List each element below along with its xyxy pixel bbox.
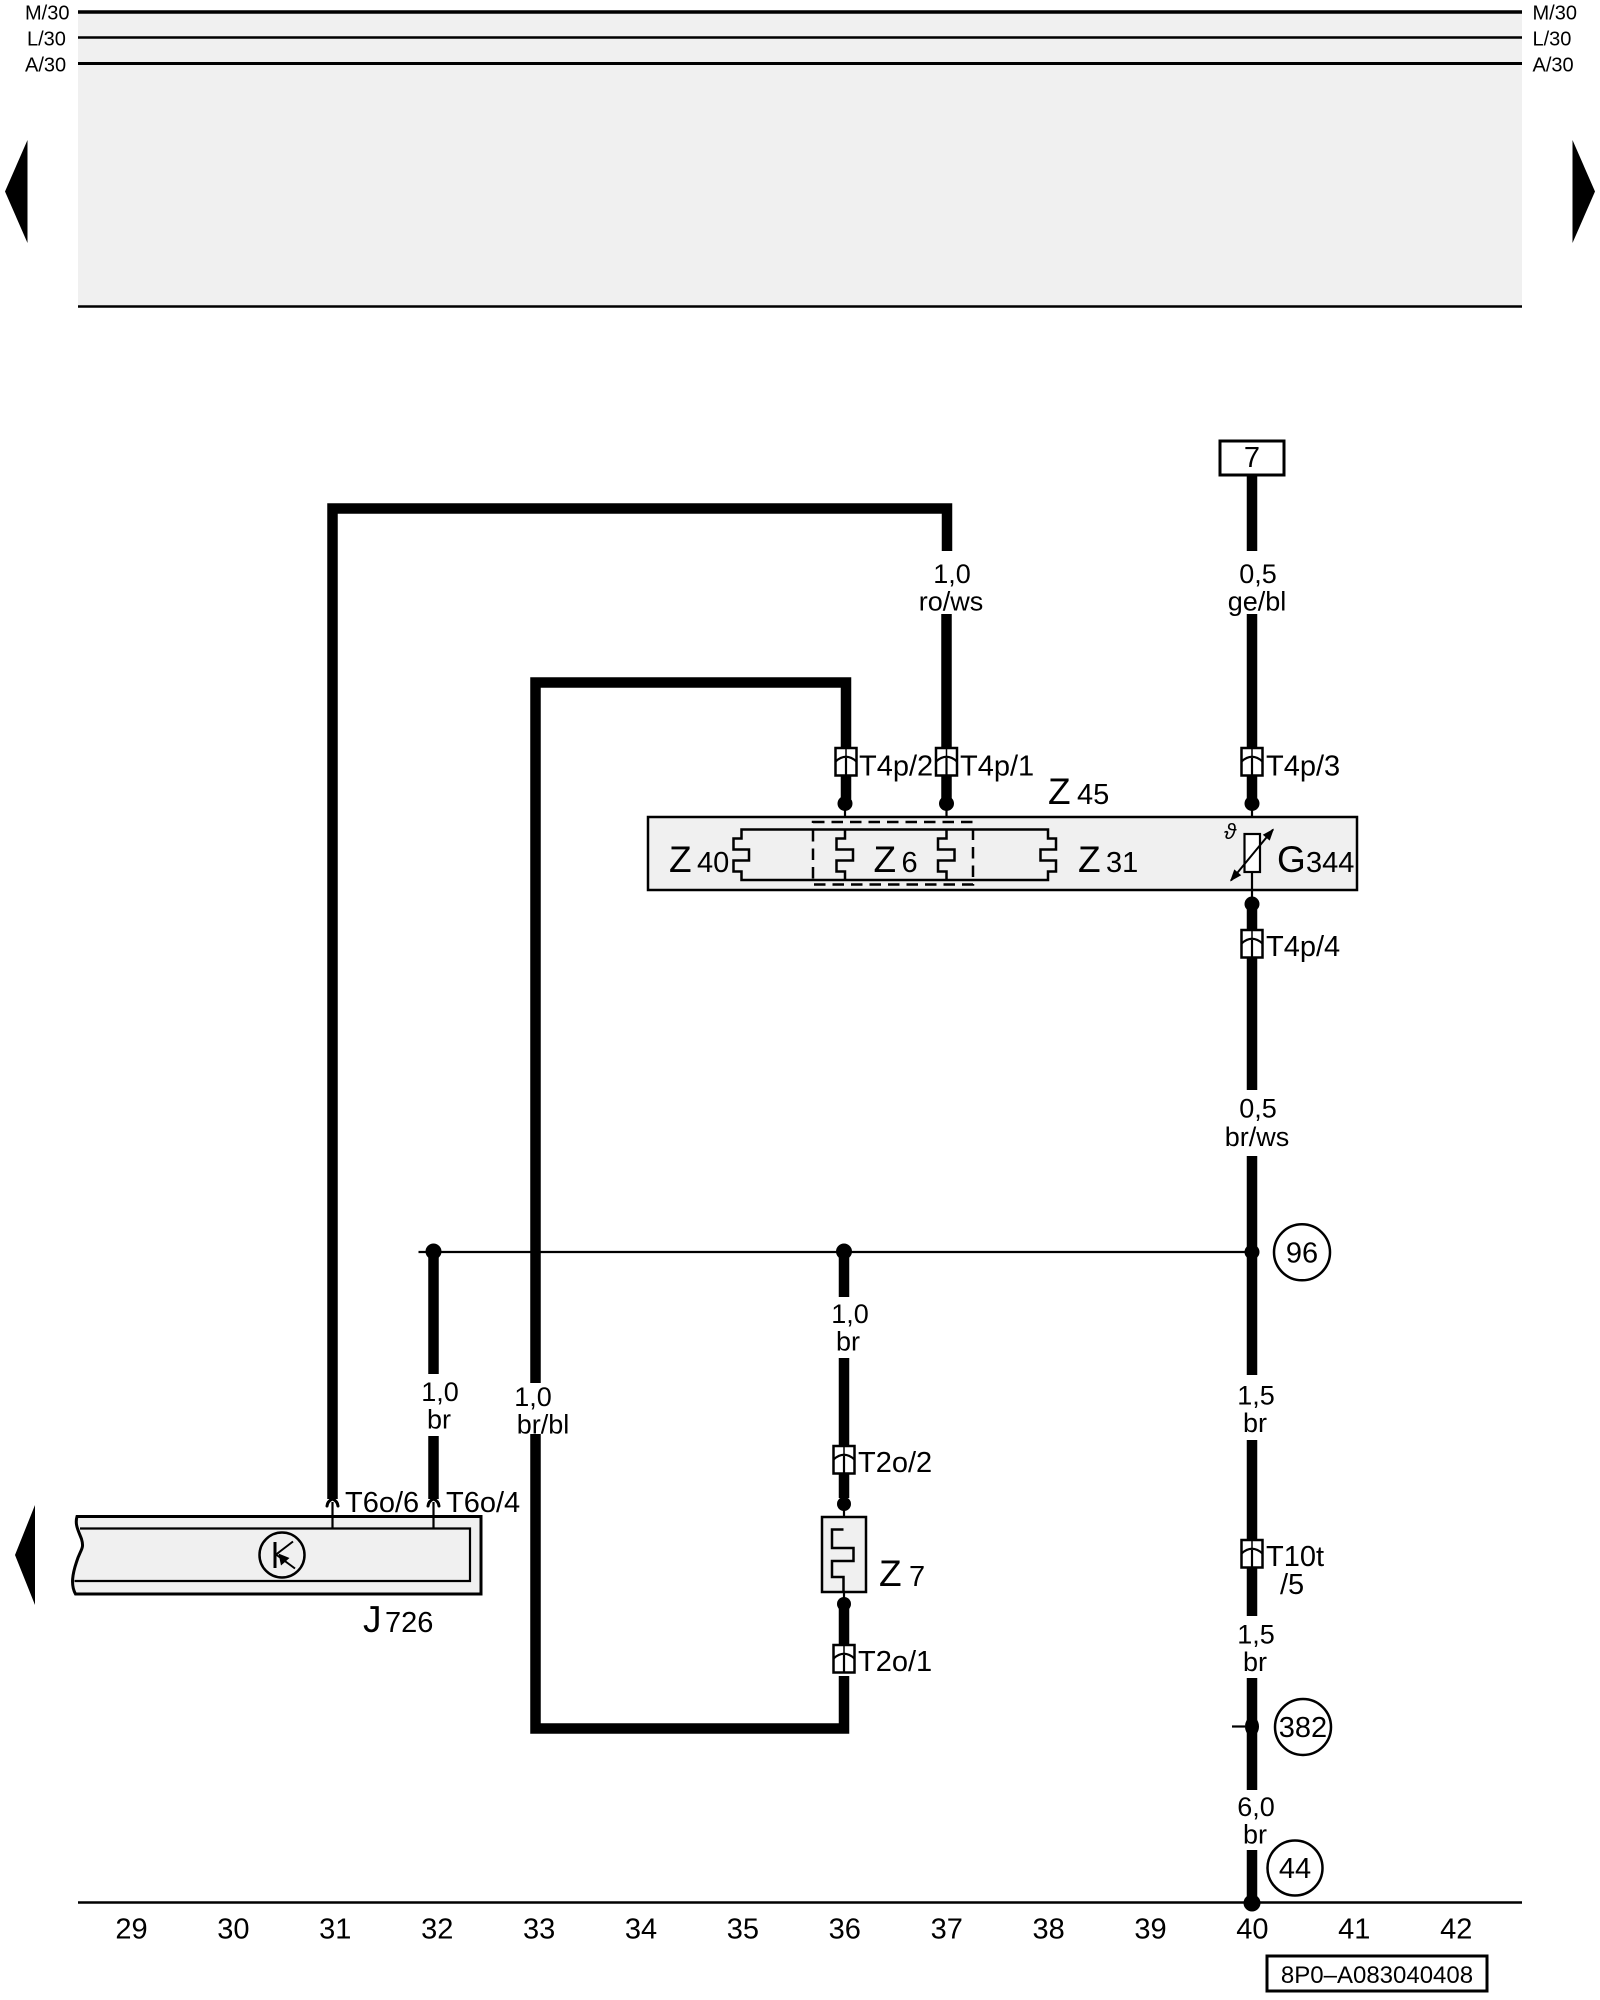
dashed housing Z6 <box>813 822 973 885</box>
wire through junction 96 <box>1247 1156 1258 1375</box>
svg-text:40: 40 <box>1236 1914 1268 1946</box>
svg-text:A/30: A/30 <box>25 55 66 77</box>
wire 1,0 br to T2o/2 <box>839 1358 850 1447</box>
svg-text:0,5: 0,5 <box>1239 1094 1277 1124</box>
junction dot above Z7 <box>837 1497 851 1511</box>
svg-text:T2o/1: T2o/1 <box>858 1646 932 1678</box>
svg-text:29: 29 <box>115 1914 147 1946</box>
svg-text:A/30: A/30 <box>1533 55 1574 77</box>
svg-text:br/bl: br/bl <box>517 1410 570 1440</box>
node circle 96 <box>1274 1224 1330 1280</box>
thin lead into Z45 from T4p/2 junction <box>844 804 846 831</box>
svg-text:T4p/1: T4p/1 <box>960 751 1034 783</box>
svg-text:ge/bl: ge/bl <box>1228 587 1287 617</box>
svg-text:39: 39 <box>1134 1914 1166 1946</box>
svg-text:Z: Z <box>1078 839 1101 880</box>
svg-text:T2o/2: T2o/2 <box>858 1447 932 1479</box>
svg-text:T6o/4: T6o/4 <box>446 1487 520 1519</box>
svg-text:M/30: M/30 <box>1533 3 1577 25</box>
junction dot branch 36 <box>836 1244 852 1260</box>
svg-text:37: 37 <box>931 1914 963 1946</box>
G344 variable arrow <box>1231 830 1273 881</box>
node circle 44 <box>1268 1841 1323 1896</box>
connector T2o/2 <box>834 1446 855 1474</box>
wire 1,0 br to T6o/4 <box>428 1436 439 1499</box>
connector T4p/1 <box>936 748 957 776</box>
bus band 30-rail <box>78 11 1522 307</box>
control module J726 <box>73 1517 481 1595</box>
connector T10t/5 <box>1242 1540 1263 1568</box>
thin lead pin T6o/6 <box>331 1502 333 1529</box>
svg-text:M/30: M/30 <box>25 3 69 25</box>
heater element housing Z45 <box>648 817 1357 890</box>
thin lead into Z45 from T4p/3 junction <box>1251 804 1253 835</box>
wire to T4p/1 (from J726 T6o/6 up and across) <box>333 509 948 1500</box>
junction dot branch 32 <box>426 1244 442 1260</box>
svg-text:6: 6 <box>902 847 918 879</box>
thin lead into Z7 <box>843 1504 845 1530</box>
wire stub Z7 to T2o/1 <box>839 1607 850 1646</box>
wire through junction 382 <box>1247 1678 1258 1790</box>
wire 1,0 ro/ws lower segment <box>941 614 952 749</box>
svg-text:br: br <box>427 1405 451 1435</box>
wire stub T2o/2 to Z7 <box>839 1474 850 1499</box>
wire stub T4p/3 to junction <box>1247 776 1258 800</box>
pin T6o/6 terminal <box>327 1499 338 1506</box>
thin lead into Z45 from T4p/1 junction <box>945 804 947 831</box>
svg-text:33: 33 <box>523 1914 555 1946</box>
wire 1,0 br stub below junction 36 <box>839 1252 850 1298</box>
connector T4p/3 <box>1242 748 1263 776</box>
Z7 element <box>832 1530 854 1593</box>
thin lead out of Z45 bottom <box>1251 872 1253 899</box>
svg-text:T4p/3: T4p/3 <box>1266 751 1340 783</box>
svg-text:31: 31 <box>319 1914 351 1946</box>
wire to T4p/2 (br/bl branch across) <box>536 683 847 1384</box>
svg-text:40: 40 <box>697 847 729 879</box>
svg-text:T4p/4: T4p/4 <box>1266 931 1340 963</box>
thin lead pin T6o/4 <box>432 1502 434 1529</box>
thin lead out of Z7 <box>843 1592 845 1604</box>
wire 0,5 ge/bl lower <box>1247 614 1258 749</box>
wire 1,0 br stub below junction 32 <box>428 1252 439 1375</box>
svg-text:6,0: 6,0 <box>1237 1792 1275 1822</box>
junction dot 382 <box>1245 1717 1259 1736</box>
svg-text:45: 45 <box>1077 779 1109 811</box>
wire stub T4p/1 to junction <box>941 776 952 800</box>
wire 6,0 br to ground rail <box>1247 1850 1258 1898</box>
connector T4p/2 <box>836 748 857 776</box>
wire bus L/30 <box>78 36 1522 38</box>
svg-text:35: 35 <box>727 1914 759 1946</box>
box terminal 7 <box>1220 441 1284 475</box>
svg-text:8P0–A083040408: 8P0–A083040408 <box>1281 1962 1473 1989</box>
resistor element Z7 housing <box>822 1517 866 1592</box>
svg-text:1,0: 1,0 <box>831 1299 869 1329</box>
element divider at Z31 left (T4p/1 feed) <box>938 830 955 881</box>
wire bus A/30 <box>78 62 1522 65</box>
svg-text:Z: Z <box>879 1553 902 1594</box>
element divider at Z6 left (T4p/2 feed) <box>837 830 854 881</box>
svg-text:Z: Z <box>669 839 692 880</box>
node circle 382 <box>1275 1699 1331 1755</box>
svg-text:34: 34 <box>625 1914 657 1946</box>
svg-text:L/30: L/30 <box>27 29 66 51</box>
svg-text:7: 7 <box>1244 442 1260 474</box>
svg-text:30: 30 <box>217 1914 249 1946</box>
svg-text:Z: Z <box>874 839 897 880</box>
svg-text:ro/ws: ro/ws <box>919 587 984 617</box>
svg-text:382: 382 <box>1279 1712 1327 1744</box>
sensor G344 resistor body <box>1245 834 1261 872</box>
wire 1,5 br lower <box>1247 1568 1258 1617</box>
continuation arrow top left <box>5 140 28 243</box>
svg-text:G: G <box>1277 839 1306 880</box>
svg-text:T6o/6: T6o/6 <box>345 1487 419 1519</box>
heater element strip outline (Z40/Z6/Z31) <box>734 830 1057 881</box>
diagram code box <box>1267 1956 1487 1991</box>
svg-text:ϑ: ϑ <box>1224 819 1237 844</box>
svg-text:44: 44 <box>1279 1853 1311 1885</box>
wire stub to T4p/4 <box>1247 907 1258 931</box>
svg-text:96: 96 <box>1286 1238 1318 1270</box>
svg-text:726: 726 <box>385 1607 433 1639</box>
tick at junction 382 <box>1232 1725 1245 1727</box>
junction dot under T4p/2 <box>838 796 853 811</box>
svg-text:42: 42 <box>1440 1914 1472 1946</box>
junction dot above T4p/4 <box>1245 897 1260 912</box>
continuation arrow mid left <box>15 1505 35 1605</box>
svg-text:1,0: 1,0 <box>514 1382 552 1412</box>
svg-text:32: 32 <box>421 1914 453 1946</box>
J726 electronics symbol <box>260 1533 305 1578</box>
junction dot at 96 <box>1245 1245 1260 1260</box>
junction dot under T4p/3 <box>1245 796 1260 811</box>
junction dot on ground rail <box>1244 1895 1261 1912</box>
svg-text:1,5: 1,5 <box>1237 1620 1275 1650</box>
svg-text:1,5: 1,5 <box>1237 1381 1275 1411</box>
svg-text:1,0: 1,0 <box>421 1377 459 1407</box>
svg-text:br/ws: br/ws <box>1225 1122 1290 1152</box>
svg-text:br: br <box>1243 1820 1267 1850</box>
svg-text:/5: /5 <box>1280 1569 1304 1601</box>
svg-text:T4p/2: T4p/2 <box>859 751 933 783</box>
wire 0,5 ge/bl upper <box>1247 475 1258 551</box>
junction dot below Z7 <box>837 1597 851 1611</box>
band bottom edge <box>78 305 1522 307</box>
pin T6o/4 terminal <box>428 1499 439 1506</box>
svg-text:7: 7 <box>909 1561 925 1593</box>
connector T4p/4 <box>1242 930 1263 958</box>
svg-text:1,0: 1,0 <box>933 559 971 589</box>
ground rail bottom <box>78 1901 1522 1903</box>
wire 0,5 br/ws upper <box>1247 958 1258 1091</box>
svg-text:38: 38 <box>1032 1914 1064 1946</box>
connector T2o/1 <box>834 1645 855 1673</box>
wire br/bl lower run to T2o/1 <box>536 1434 845 1729</box>
svg-text:L/30: L/30 <box>1533 29 1572 51</box>
svg-text:br: br <box>836 1327 860 1357</box>
svg-text:J: J <box>363 1599 382 1640</box>
svg-text:344: 344 <box>1306 847 1354 879</box>
wire stub T4p/2 to junction <box>841 776 852 800</box>
svg-text:br: br <box>1243 1647 1267 1677</box>
junction dot under T4p/1 <box>939 796 954 811</box>
svg-text:41: 41 <box>1338 1914 1370 1946</box>
svg-text:0,5: 0,5 <box>1239 559 1277 589</box>
wire 1,5 br upper <box>1247 1440 1258 1541</box>
wire bus M/30 <box>78 10 1522 14</box>
thin equipotential line to junction 96 <box>419 1251 1253 1253</box>
svg-text:br: br <box>1243 1408 1267 1438</box>
svg-text:36: 36 <box>829 1914 861 1946</box>
svg-text:31: 31 <box>1106 847 1138 879</box>
continuation arrow top right <box>1573 140 1596 243</box>
svg-text:Z: Z <box>1048 771 1071 812</box>
